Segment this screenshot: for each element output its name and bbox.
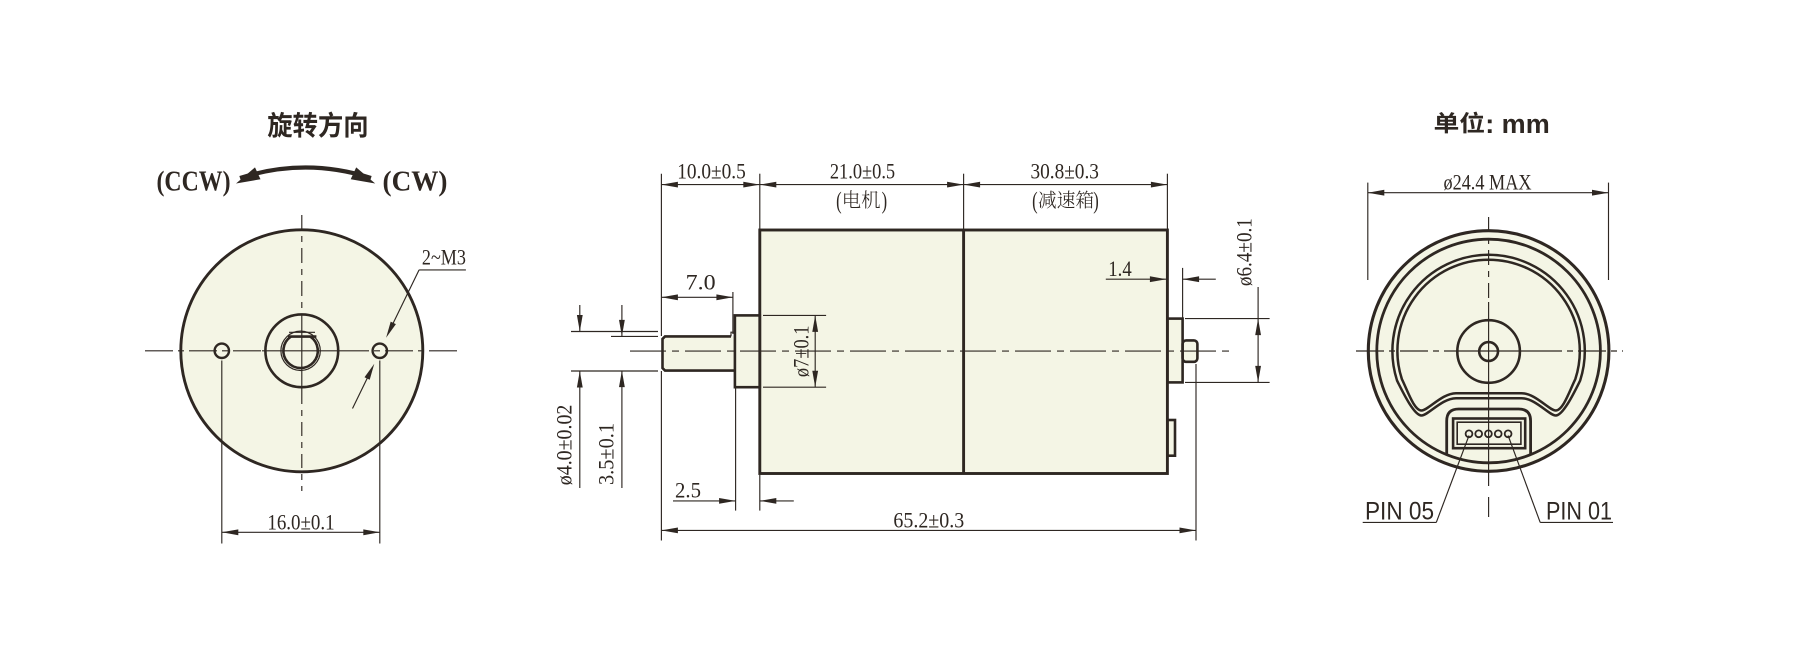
connector housing inner [1457, 422, 1521, 444]
extension lines ø24.4 [1367, 183, 1369, 280]
svg-text:1.4: 1.4 [1108, 256, 1131, 281]
extension lines for 16.0 dimension [221, 361, 223, 544]
svg-text:65.2±0.3: 65.2±0.3 [893, 508, 964, 533]
side connector tab [1167, 420, 1175, 456]
front view outer housing circle [181, 230, 423, 472]
front bearing boss circle ø7 [265, 314, 338, 387]
leader PIN 01 [1508, 436, 1540, 523]
rotation direction curved arrow [240, 168, 371, 179]
svg-text:7.0: 7.0 [686, 269, 716, 294]
rear view vertical centerline [1488, 217, 1490, 302]
svg-text:ø7±0.1: ø7±0.1 [789, 326, 814, 378]
shaft nominal flat line (thin) [289, 331, 315, 333]
dimension 16.0±0.1 [222, 531, 380, 533]
svg-text:ø24.4 MAX: ø24.4 MAX [1444, 170, 1532, 195]
front view vertical centerline [301, 215, 303, 316]
rear groove contour (inner) [1397, 260, 1579, 411]
front view title 旋转方向 [268, 111, 367, 137]
connector pin 5 [1466, 430, 1473, 437]
rear groove contour (outer) [1392, 255, 1584, 416]
dimension 1.4 [1182, 268, 1184, 319]
shaft nominal circle ø4 (thin) [281, 331, 320, 370]
motor+gearbox body [760, 230, 1168, 474]
svg-text:(: ( [1032, 188, 1038, 214]
units label 单位: mm [1435, 112, 1484, 134]
dimension ø24.4 MAX [1368, 192, 1609, 194]
svg-text:): ) [882, 188, 888, 214]
right mounting hole M3 [373, 344, 387, 358]
rear boss ø6.4 [1167, 319, 1182, 383]
svg-text:2~M3: 2~M3 [422, 244, 466, 269]
svg-text:): ) [1093, 188, 1099, 214]
svg-text:(: ( [836, 188, 842, 214]
dimension 10.0±0.5 [661, 184, 759, 186]
svg-text:: mm: : mm [1485, 109, 1550, 139]
svg-text:(CCW): (CCW) [157, 166, 231, 198]
rear housing fill [1368, 231, 1609, 472]
rear shaft stub [1183, 340, 1198, 361]
dimension 21.0±0.5 (motor) [760, 184, 964, 186]
dimension 30.8±0.3 (gearbox) [964, 184, 1168, 186]
front view horizontal centerline [145, 350, 262, 352]
connector housing outer [1453, 419, 1525, 449]
dimension ø4.0±0.02 [571, 331, 658, 333]
top extension lines [660, 174, 662, 336]
dimension ø6.4±0.1 [1185, 318, 1270, 320]
svg-text:2.5: 2.5 [675, 478, 701, 503]
dimension 7.0 (shaft flat length) [732, 292, 734, 334]
side view body fills [760, 230, 1168, 474]
rear view horizontal centerline [1356, 350, 1444, 352]
dimension 65.2±0.3 (overall length) [1195, 364, 1197, 541]
svg-text:PIN 05: PIN 05 [1365, 497, 1434, 525]
svg-text:10.0±0.5: 10.0±0.5 [677, 158, 746, 183]
left mounting hole M3 [215, 344, 229, 358]
rear housing rim circle [1377, 239, 1601, 463]
svg-text:ø4.0±0.02: ø4.0±0.02 [552, 405, 577, 486]
motor/gearbox housing divider [962, 230, 965, 474]
svg-text:3.5±0.1: 3.5±0.1 [594, 423, 619, 485]
svg-text:(CW): (CW) [383, 166, 448, 198]
connector pin 1 [1505, 430, 1512, 437]
front view housing fill [181, 230, 423, 472]
leader PIN 05 [1436, 436, 1469, 523]
connector tray outline [1447, 409, 1531, 455]
side view horizontal centerline [630, 350, 1232, 352]
output shaft ø4 with flat [663, 336, 735, 370]
rear bearing circle [1457, 320, 1520, 383]
output shaft boss ø7 [735, 315, 760, 387]
connector pin 2 [1495, 430, 1502, 437]
rear center hole [1479, 342, 1498, 361]
svg-text:ø6.4±0.1: ø6.4±0.1 [1232, 218, 1257, 286]
shaft D-section with flat (thick) [283, 337, 317, 368]
dimension 2.5 (boss width) [735, 389, 737, 511]
connector pin 3 [1485, 430, 1492, 437]
connector pin 4 [1475, 430, 1482, 437]
rear view outer housing circle [1368, 231, 1609, 472]
dimension ø7±0.1 [763, 314, 826, 316]
svg-text:30.8±0.3: 30.8±0.3 [1030, 158, 1099, 183]
svg-text:16.0±0.1: 16.0±0.1 [267, 510, 334, 535]
svg-text:21.0±0.5: 21.0±0.5 [830, 158, 895, 183]
svg-text:PIN 01: PIN 01 [1546, 497, 1612, 525]
dimension 3.5±0.1 [611, 335, 658, 337]
